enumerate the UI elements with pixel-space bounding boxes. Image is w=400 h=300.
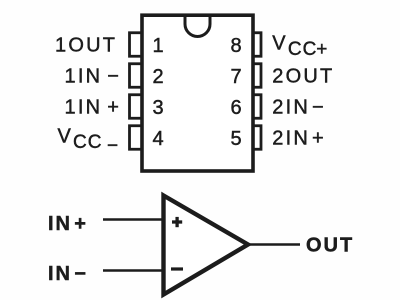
svg-text:IN+: IN+	[48, 213, 88, 235]
svg-text:1OUT: 1OUT	[55, 35, 117, 57]
svg-text:2: 2	[152, 66, 163, 88]
svg-text:1IN+: 1IN+	[65, 97, 122, 119]
svg-text:5: 5	[230, 128, 241, 150]
svg-text:4: 4	[152, 128, 163, 150]
svg-text:6: 6	[230, 97, 241, 119]
svg-text:3: 3	[152, 97, 163, 119]
svg-text:1: 1	[152, 35, 163, 57]
svg-text:1IN−: 1IN−	[65, 66, 122, 88]
svg-text:8: 8	[230, 35, 241, 57]
svg-text:IN−: IN−	[48, 263, 88, 285]
svg-text:2IN+: 2IN+	[272, 128, 326, 150]
svg-text:7: 7	[230, 66, 241, 88]
svg-text:2OUT: 2OUT	[272, 66, 334, 88]
svg-text:2IN−: 2IN−	[272, 97, 326, 119]
svg-text:OUT: OUT	[306, 235, 354, 257]
